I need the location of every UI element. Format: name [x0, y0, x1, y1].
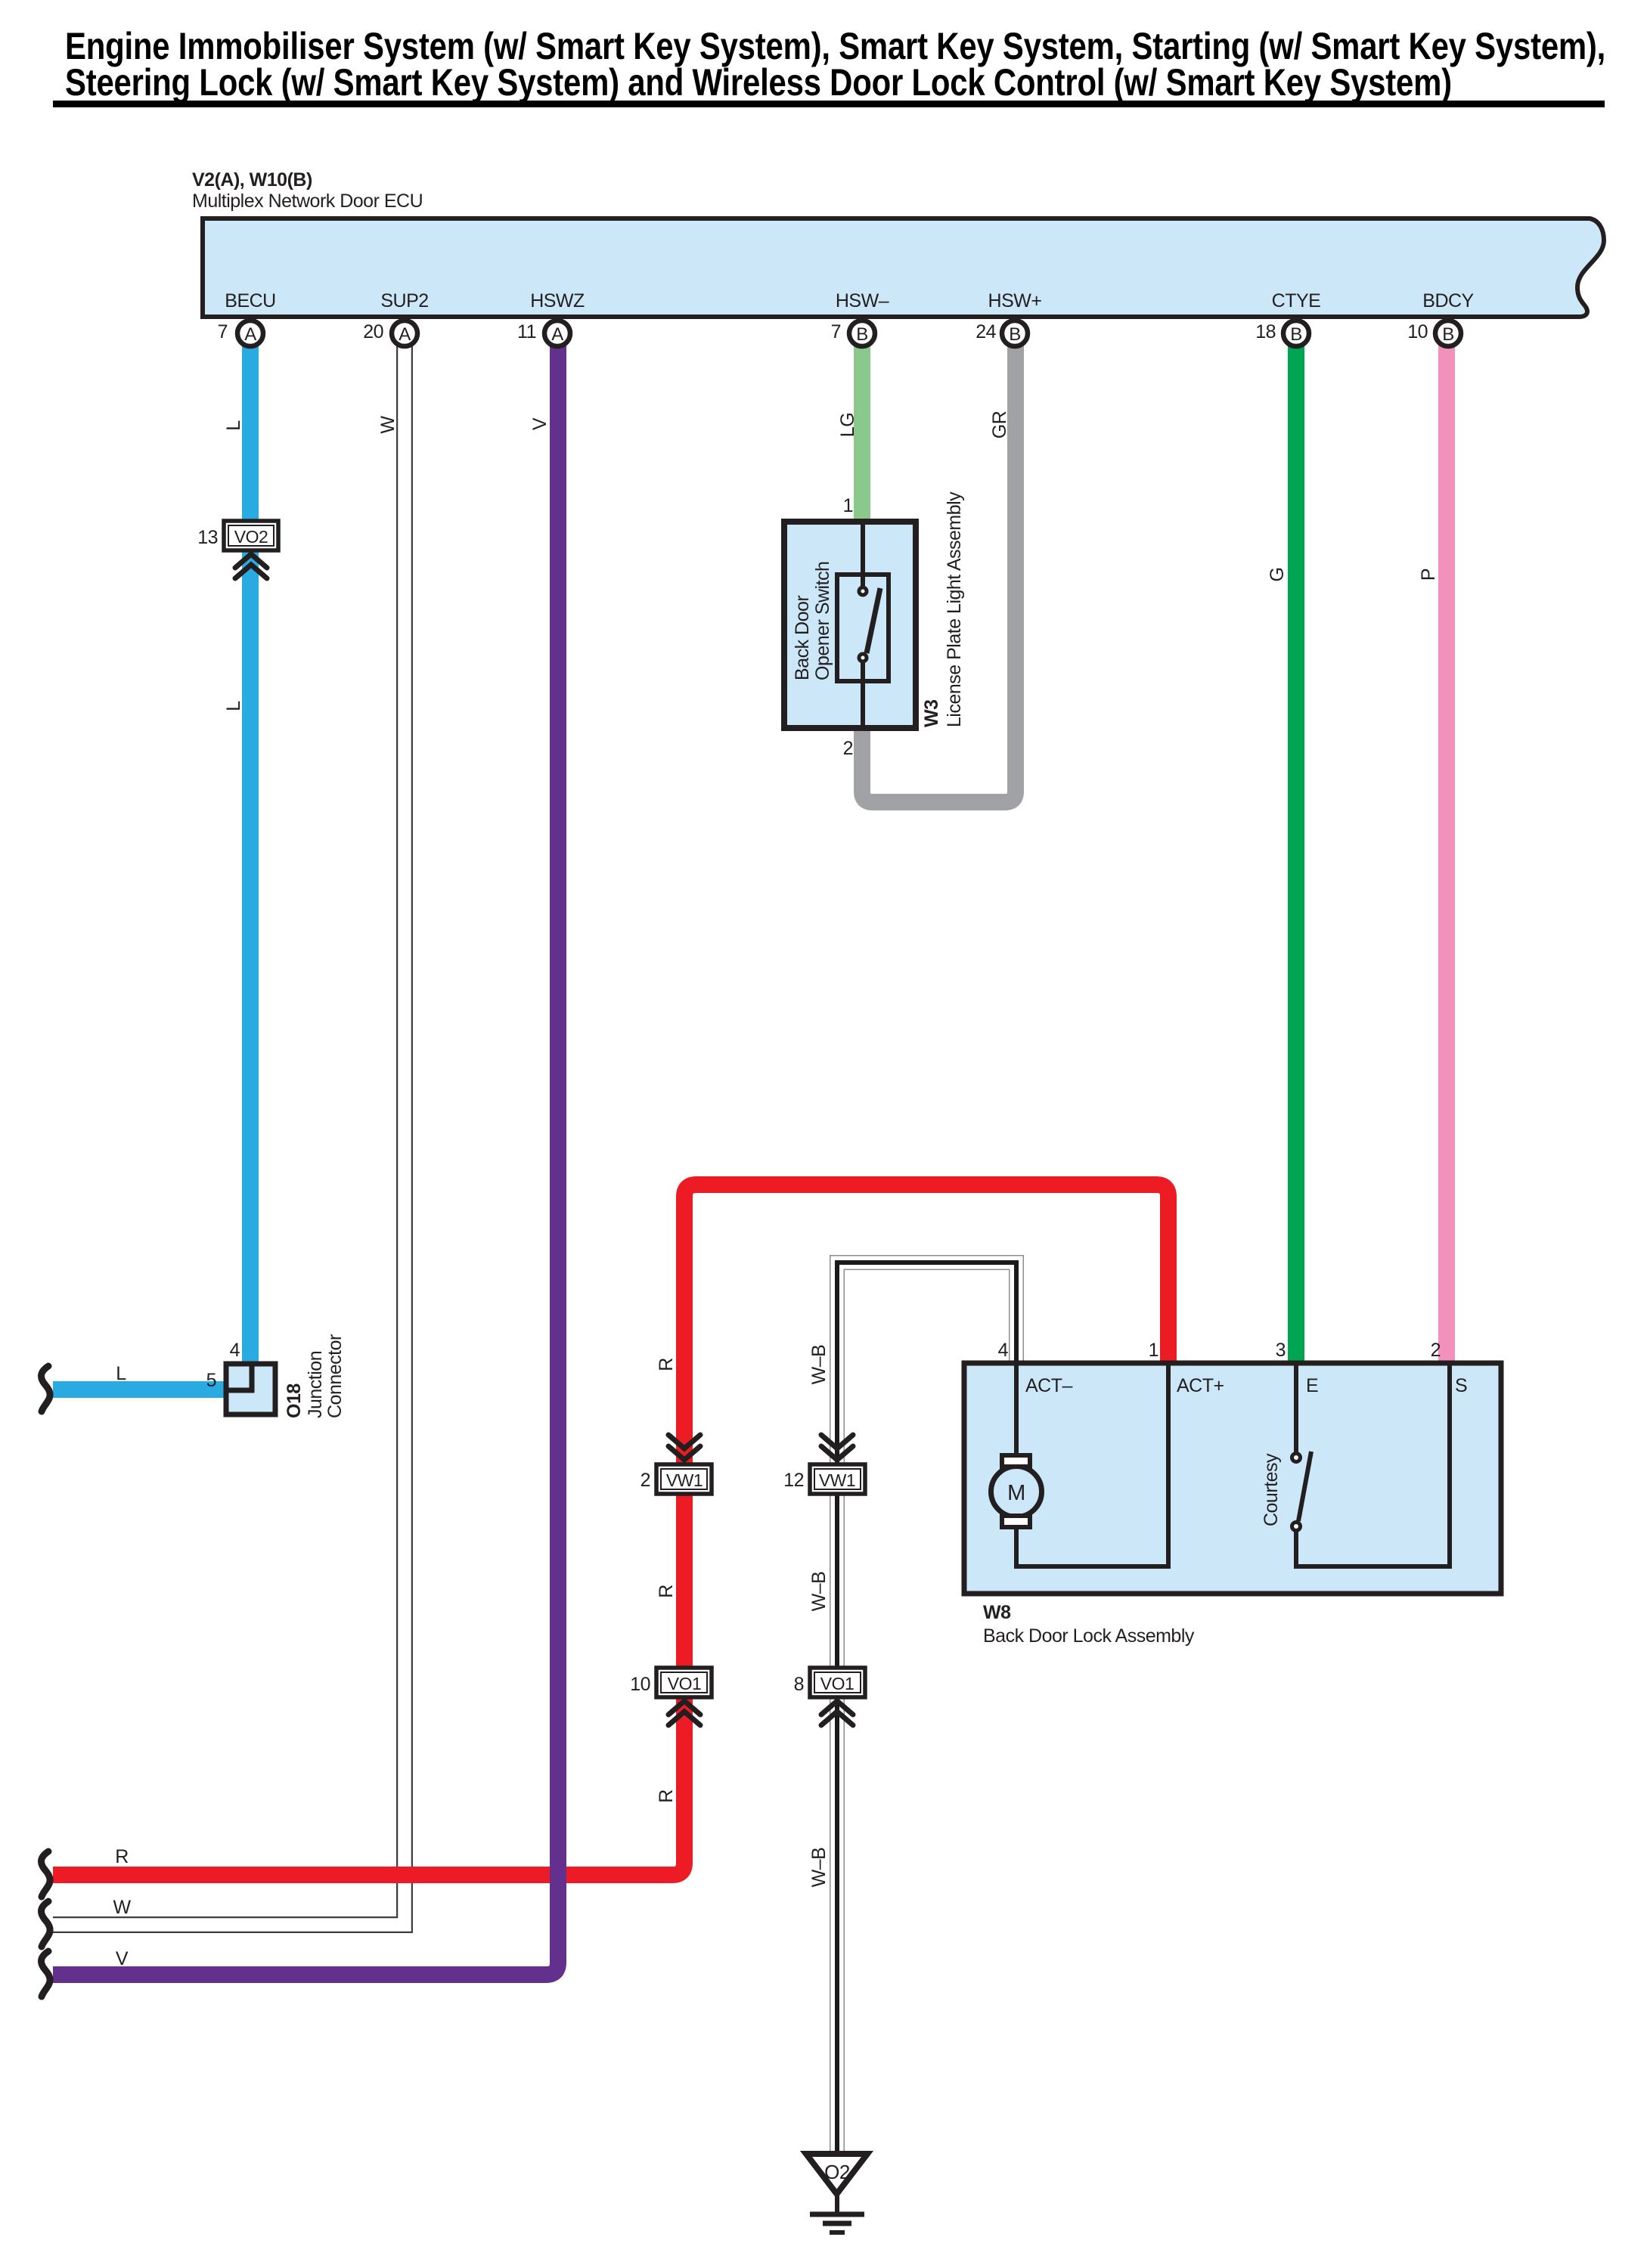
- svg-text:LG: LG: [837, 413, 858, 437]
- svg-text:S: S: [1455, 1375, 1467, 1396]
- svg-text:VO1: VO1: [820, 1674, 855, 1693]
- svg-text:O18: O18: [284, 1383, 305, 1418]
- svg-text:V2(A), W10(B): V2(A), W10(B): [192, 169, 312, 191]
- svg-text:Steering Lock (w/ Smart Key Sy: Steering Lock (w/ Smart Key System) and …: [65, 60, 1452, 103]
- svg-text:O2: O2: [824, 2161, 850, 2183]
- svg-text:10: 10: [1407, 321, 1428, 342]
- svg-text:M: M: [1007, 1481, 1025, 1505]
- svg-text:Junction: Junction: [305, 1351, 326, 1418]
- svg-text:8: 8: [794, 1674, 804, 1695]
- svg-text:GR: GR: [989, 411, 1010, 439]
- svg-text:7: 7: [831, 321, 841, 342]
- svg-text:B: B: [1290, 324, 1302, 345]
- svg-text:V: V: [116, 1948, 129, 1969]
- svg-text:1: 1: [1149, 1340, 1158, 1361]
- svg-text:W: W: [113, 1897, 131, 1918]
- svg-text:B: B: [1442, 324, 1454, 345]
- svg-text:A: A: [244, 324, 256, 345]
- svg-text:CTYE: CTYE: [1272, 290, 1321, 311]
- svg-text:12: 12: [783, 1470, 804, 1491]
- svg-text:2: 2: [843, 738, 853, 759]
- svg-text:A: A: [399, 324, 411, 345]
- svg-text:A: A: [551, 324, 563, 345]
- svg-text:24: 24: [975, 321, 996, 342]
- svg-text:W8: W8: [983, 1602, 1011, 1623]
- svg-text:11: 11: [517, 321, 536, 342]
- svg-text:SUP2: SUP2: [380, 290, 428, 311]
- svg-text:W: W: [377, 416, 399, 434]
- svg-text:HSWZ: HSWZ: [530, 290, 585, 311]
- svg-text:L: L: [223, 420, 244, 431]
- svg-text:BECU: BECU: [225, 290, 275, 311]
- svg-text:HSW+: HSW+: [988, 290, 1042, 311]
- svg-text:5: 5: [206, 1370, 216, 1391]
- svg-text:R: R: [656, 1358, 677, 1371]
- svg-text:ACT–: ACT–: [1025, 1375, 1073, 1396]
- svg-text:BDCY: BDCY: [1422, 290, 1474, 311]
- svg-text:Opener Switch: Opener Switch: [812, 562, 833, 680]
- svg-text:VW1: VW1: [666, 1470, 703, 1490]
- svg-text:R: R: [656, 1789, 677, 1803]
- svg-text:4: 4: [230, 1340, 240, 1361]
- svg-text:13: 13: [197, 527, 218, 548]
- svg-text:W–B: W–B: [808, 1848, 830, 1888]
- svg-text:10: 10: [630, 1674, 650, 1695]
- svg-text:HSW–: HSW–: [836, 290, 889, 311]
- svg-text:L: L: [116, 1363, 126, 1384]
- svg-text:R: R: [115, 1846, 129, 1867]
- svg-text:Multiplex Network Door ECU: Multiplex Network Door ECU: [192, 191, 423, 212]
- svg-text:20: 20: [363, 321, 383, 342]
- svg-text:W–B: W–B: [808, 1345, 830, 1385]
- svg-text:4: 4: [998, 1340, 1009, 1361]
- svg-text:Connector: Connector: [324, 1334, 346, 1418]
- svg-text:E: E: [1306, 1375, 1318, 1396]
- svg-text:2: 2: [1431, 1340, 1441, 1361]
- svg-text:VO1: VO1: [668, 1674, 702, 1693]
- svg-text:Back Door: Back Door: [792, 596, 813, 680]
- svg-text:2: 2: [640, 1470, 650, 1491]
- svg-text:V: V: [529, 417, 551, 430]
- svg-text:ACT+: ACT+: [1177, 1375, 1224, 1396]
- svg-text:VW1: VW1: [819, 1470, 855, 1490]
- svg-text:7: 7: [218, 321, 228, 342]
- svg-text:B: B: [856, 324, 868, 345]
- svg-text:18: 18: [1255, 321, 1276, 342]
- svg-text:B: B: [1009, 324, 1021, 345]
- svg-text:P: P: [1418, 569, 1439, 581]
- svg-text:License Plate Light Assembly: License Plate Light Assembly: [944, 491, 965, 727]
- svg-text:R: R: [656, 1585, 677, 1598]
- svg-text:W3: W3: [921, 700, 942, 728]
- svg-text:W–B: W–B: [808, 1572, 830, 1612]
- svg-text:1: 1: [843, 495, 853, 516]
- svg-text:VO2: VO2: [234, 527, 268, 547]
- svg-text:G: G: [1267, 568, 1288, 582]
- svg-text:Back Door Lock Assembly: Back Door Lock Assembly: [983, 1625, 1195, 1647]
- svg-text:L: L: [223, 701, 244, 711]
- svg-text:3: 3: [1276, 1340, 1286, 1361]
- svg-text:Courtesy: Courtesy: [1261, 1453, 1282, 1526]
